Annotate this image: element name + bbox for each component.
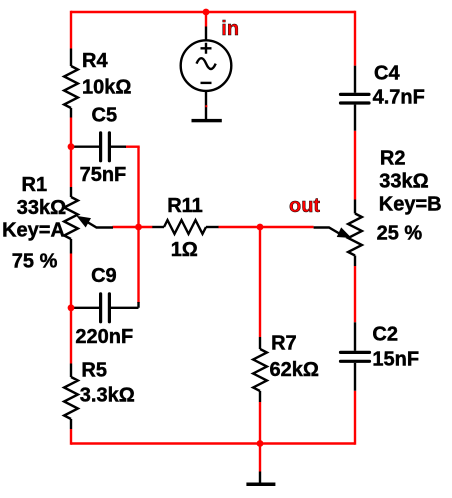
wire middle net out xyxy=(113,226,314,228)
red artifact dot on source ground wire xyxy=(205,105,207,107)
wire loop right vertical xyxy=(137,147,139,303)
svg-text:15nF: 15nF xyxy=(372,348,419,370)
svg-text:220nF: 220nF xyxy=(75,326,133,348)
svg-text:C2: C2 xyxy=(372,323,398,345)
resistor R7 xyxy=(253,337,267,402)
junction C9 left xyxy=(68,304,75,311)
junction bottom ground xyxy=(257,440,264,447)
svg-text:C4: C4 xyxy=(374,62,400,84)
resistor R11 xyxy=(152,220,218,234)
svg-text:Key=B: Key=B xyxy=(379,194,442,216)
potentiometer R1 xyxy=(64,187,113,254)
svg-text:33kΩ: 33kΩ xyxy=(379,171,428,193)
svg-text:in: in xyxy=(221,18,239,40)
svg-text:3.3kΩ: 3.3kΩ xyxy=(80,384,135,406)
junction out node xyxy=(257,224,264,231)
svg-text:out: out xyxy=(289,195,320,217)
capacitor C9 xyxy=(72,294,139,322)
wire right branch red segments xyxy=(354,11,356,445)
wire R7 branch red xyxy=(259,227,261,472)
junction wiper R1 net xyxy=(135,224,142,231)
R2 wiper arrow xyxy=(338,228,351,237)
wire bottom rail xyxy=(71,442,355,444)
junction C5 left xyxy=(68,143,75,150)
svg-text:33kΩ: 33kΩ xyxy=(17,197,66,219)
svg-text:75 %: 75 % xyxy=(12,250,58,272)
wire source stub xyxy=(205,12,207,27)
ground under source xyxy=(192,119,222,122)
ac source V1 xyxy=(181,27,232,120)
svg-text:C9: C9 xyxy=(91,265,117,287)
svg-text:C5: C5 xyxy=(92,104,118,126)
resistor R5 xyxy=(64,364,78,430)
capacitor C5 xyxy=(72,133,126,161)
svg-text:R1: R1 xyxy=(22,174,48,196)
svg-text:75nF: 75nF xyxy=(80,164,127,186)
svg-text:R7: R7 xyxy=(271,333,297,355)
svg-text:25 %: 25 % xyxy=(377,223,423,245)
potentiometer R2 xyxy=(314,200,362,267)
svg-text:62kΩ: 62kΩ xyxy=(270,359,319,381)
resistor R4 xyxy=(64,49,78,118)
wire top rail xyxy=(71,11,355,14)
svg-text:1Ω: 1Ω xyxy=(171,239,198,261)
capacitor C2 xyxy=(341,322,370,390)
svg-text:R2: R2 xyxy=(380,147,406,169)
svg-text:R5: R5 xyxy=(81,360,107,382)
wire C5 right red part xyxy=(125,145,140,147)
ground bottom xyxy=(259,472,261,483)
svg-text:10kΩ: 10kΩ xyxy=(82,76,131,98)
junction top at source xyxy=(203,9,210,16)
wire left branch red segments xyxy=(70,11,72,445)
svg-text:Key=A: Key=A xyxy=(2,219,65,241)
R1 wiper arrow xyxy=(78,217,91,227)
capacitor C4 xyxy=(341,66,370,131)
svg-text:R4: R4 xyxy=(82,50,108,72)
svg-text:R11: R11 xyxy=(167,195,203,217)
svg-text:4.7nF: 4.7nF xyxy=(373,87,425,109)
